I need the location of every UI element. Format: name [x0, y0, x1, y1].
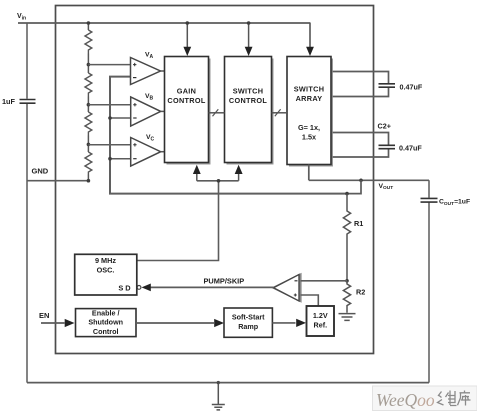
svg-text:0.47uF: 0.47uF — [400, 82, 423, 91]
wire flying capacitor C1 pins — [333, 72, 389, 97]
arrowhead into GAIN CONTROL — [183, 47, 191, 56]
IC outline box — [56, 6, 374, 354]
ground symbol bottom center — [212, 383, 225, 410]
capacitor C2 0.47uF — [379, 145, 396, 148]
wire stem up into SWITCH CONTROL — [238, 173, 240, 181]
comparator VB — [131, 97, 161, 126]
comparator VC — [131, 138, 161, 167]
wire comparator + input from FB — [301, 280, 348, 282]
junction dot bus VB- — [108, 116, 112, 120]
svg-text:GND: GND — [32, 167, 49, 176]
wire bottom ground rail — [27, 382, 429, 384]
watermark WeeQoo — [373, 386, 477, 411]
arrowhead into Soft-Start — [214, 319, 224, 327]
svg-text:Ref.: Ref. — [314, 321, 328, 330]
svg-text:1.5x: 1.5x — [302, 133, 316, 142]
svg-text:Soft-Start: Soft-Start — [232, 312, 265, 321]
wire feedback jog — [347, 180, 361, 193]
svg-text:9 MHz: 9 MHz — [95, 256, 116, 265]
resistor chain R-d — [85, 152, 92, 175]
wire VB- input — [110, 117, 131, 119]
wire Enable to Soft-Start — [136, 322, 214, 324]
wire Vin rail — [18, 22, 310, 24]
svg-text:GAIN: GAIN — [177, 87, 196, 96]
block GAIN CONTROL — [165, 57, 211, 165]
wire VB+ input — [88, 104, 131, 106]
junction dot Vin/GAIN — [186, 21, 190, 25]
junction dot divider tap B — [87, 103, 91, 107]
svg-text:Enable /: Enable / — [92, 308, 120, 317]
svg-text:Shutdown: Shutdown — [88, 318, 123, 327]
junction dot ground stem — [217, 381, 220, 384]
wire SWITCH ARRAY output to Vout — [309, 165, 429, 181]
wire Vin drop to GAIN CONTROL — [186, 23, 188, 48]
block Enable/Shutdown Control — [76, 308, 137, 336]
wire stem up into GAIN CONTROL — [196, 173, 198, 181]
wire VC- input — [110, 158, 131, 160]
junction dot FB node — [345, 279, 349, 283]
wire flying capacitor C2 pins — [333, 133, 389, 158]
resistor divider chain: wire segments — [87, 23, 89, 181]
svg-text:R2: R2 — [356, 287, 365, 296]
wire EN input — [41, 322, 65, 324]
wire output rail right — [428, 180, 430, 382]
wire Vin drop to SWITCH ARRAY — [309, 23, 311, 48]
junction dot divider top — [87, 21, 91, 25]
svg-text:PUMP/SKIP: PUMP/SKIP — [204, 277, 245, 286]
wire oscillator sync riser — [137, 181, 239, 261]
svg-text:SWITCH: SWITCH — [233, 87, 264, 96]
comparator U-err (pump/skip) — [274, 275, 301, 302]
svg-text:0.47uF: 0.47uF — [399, 143, 422, 152]
junction dot divider bottom — [87, 179, 91, 183]
arrowhead up into SWITCH CONTROL — [235, 165, 243, 174]
svg-text:R1: R1 — [354, 219, 363, 228]
wire GND pin line — [27, 180, 88, 182]
svg-text:ARRAY: ARRAY — [296, 94, 323, 103]
wire bus GAIN to SWITCH CONTROL — [209, 112, 225, 114]
junction dot feedback top — [345, 192, 349, 196]
svg-text:OSC.: OSC. — [97, 266, 115, 275]
wire VA+ input — [88, 64, 131, 66]
wire bus SWITCH CONTROL to SWITCH ARRAY — [272, 112, 288, 114]
arrowhead into SWITCH CONTROL — [245, 47, 253, 56]
comparator VA — [131, 58, 161, 85]
bus slash mark 2 — [275, 109, 281, 116]
junction dot bus VC- — [108, 157, 112, 161]
arrowhead EN into Enable block — [65, 319, 75, 327]
svg-text:1uF: 1uF — [2, 97, 16, 106]
block SWITCH ARRAY — [287, 57, 333, 167]
svg-text:1.2V: 1.2V — [313, 311, 328, 320]
wire inverting-input feedback bus — [110, 77, 347, 194]
svg-text:S D: S D — [118, 283, 131, 292]
resistor R1 — [343, 194, 350, 281]
svg-text:C2+: C2+ — [378, 122, 391, 131]
svg-text:SWITCH: SWITCH — [294, 85, 325, 94]
wire Vin drop to SWITCH CONTROL — [248, 23, 250, 48]
resistor chain R-c — [85, 112, 92, 136]
svg-text:G= 1x,: G= 1x, — [298, 123, 320, 132]
junction dot divider tap A — [87, 63, 91, 67]
svg-text:CONTROL: CONTROL — [167, 96, 205, 105]
capacitor 1uF input — [20, 100, 36, 104]
resistor R2 — [343, 281, 350, 313]
wire left Vin/GND rail — [26, 23, 28, 383]
wire comparator - input from 1.2V ref — [301, 295, 319, 306]
watermark 维 glyph — [438, 391, 457, 406]
block SWITCH CONTROL — [225, 57, 274, 165]
junction dot divider tap C — [87, 143, 91, 147]
capacitor Cout — [421, 198, 438, 202]
bus slash mark 1 — [213, 109, 219, 116]
wire Soft-Start to 1.2V Ref — [272, 322, 295, 324]
ground symbol under R2 — [339, 314, 356, 321]
arrowhead into SWITCH ARRAY — [306, 47, 314, 56]
arrowhead PUMP/SKIP into SD — [142, 284, 151, 292]
wire VC output — [161, 151, 165, 153]
block Soft-Start Ramp — [224, 308, 272, 337]
arrowhead into 1.2V Ref — [296, 319, 306, 327]
wire VA output — [161, 70, 165, 72]
svg-text:EN: EN — [39, 311, 49, 320]
block oscillator 9 MHz OSC — [75, 254, 137, 295]
wire VB output — [161, 110, 165, 112]
capacitor C1 0.47uF — [379, 84, 396, 87]
watermark 库 glyph — [458, 391, 471, 406]
junction dot osc riser — [217, 179, 221, 183]
svg-text:Control: Control — [93, 327, 119, 336]
svg-text:Ramp: Ramp — [238, 322, 259, 331]
svg-text:CONTROL: CONTROL — [229, 96, 267, 105]
arrowhead up into GAIN CONTROL — [193, 165, 201, 174]
junction dot Vout feedback — [359, 179, 363, 183]
wire VC+ input — [88, 144, 131, 146]
resistor chain R-b — [85, 73, 92, 97]
resistor chain R-a — [85, 30, 92, 54]
wire PUMP/SKIP — [150, 286, 274, 288]
SD inverter bubble — [137, 286, 141, 290]
junction dot Vin/SWITCH — [247, 21, 251, 25]
svg-text:WeeQoo: WeeQoo — [376, 390, 435, 410]
block 1.2V Ref — [307, 306, 335, 336]
